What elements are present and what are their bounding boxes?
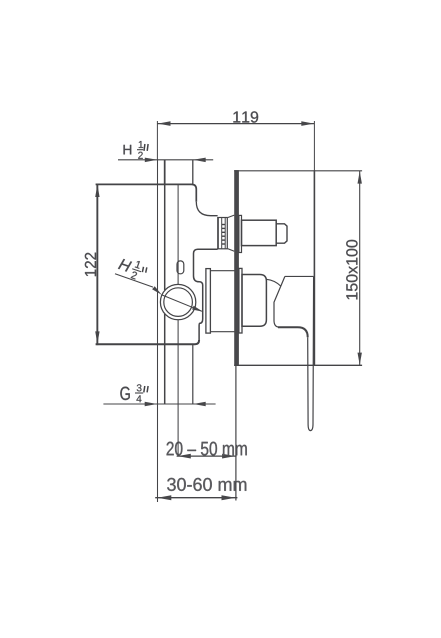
slot hole on body face [177, 261, 184, 274]
outlet sleeve ring (right of plate, top) [239, 215, 242, 252]
valve body outline [96, 184, 218, 346]
wall plate (150x100, edge-on thick bar) [234, 170, 362, 366]
outlet tip [276, 224, 287, 243]
inlet circle (3/4" inlet boss) [160, 284, 195, 319]
shower outlet pipe (right of plate) [242, 220, 277, 245]
wire: vertical line x=192.8 (right pipe edge, below body) [192, 344, 194, 404]
cartridge (behind plate) [206, 269, 235, 334]
leader H 1/2" (diagonal label with arrows to circle) [115, 255, 203, 311]
dimension G 3/4" (bottom inlet) [103, 384, 215, 406]
dimension 119 (top width) [157, 111, 314, 170]
plate lower extension line [235, 366, 237, 501]
dimension 30-60 mm (plate depth range) [155, 478, 246, 500]
threaded nipple (1/2" side outlet through wall) [217, 215, 234, 251]
dimension H 1/2" (top stub) [118, 141, 213, 162]
dimension 122 (body height, left) [85, 184, 100, 344]
handle lever [274, 276, 314, 430]
escutcheon ring (right of plate, cartridge) [239, 268, 242, 333]
handle base cap [242, 275, 266, 327]
wire: vertical line x=178.1 (pipe centre line) [177, 184, 179, 456]
top stub H1/2 edges [164, 160, 166, 184]
wire: vertical line x=164.7 (pipe edge) [164, 160, 166, 404]
dimension 150x100 (plate, right) [346, 171, 362, 365]
handle dome curve [266, 279, 280, 286]
wire: long vertical line x=157.5 (wall line / left pipe edge) [157, 160, 159, 502]
dimension 20 - 50 mm (rough-in depth) [167, 442, 247, 459]
